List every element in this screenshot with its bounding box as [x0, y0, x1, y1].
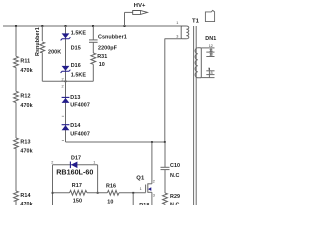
pin tick (D14 top pin 1)	[62, 115, 64, 117]
svg-text:DN1: DN1	[205, 36, 216, 42]
wire: D17 loop left leg	[52, 165, 54, 205]
node: gate line junction dropping wire	[132, 192, 134, 194]
wire: gate line	[53, 192, 70, 194]
secondary winding bottom pins	[206, 70, 214, 72]
svg-text:RB160L-60: RB160L-60	[56, 168, 93, 177]
svg-text:R29: R29	[170, 194, 180, 200]
svg-text:UF4007: UF4007	[70, 131, 90, 137]
node: rail junction at HV+ stub	[124, 25, 126, 27]
svg-text:HV+: HV+	[134, 3, 146, 9]
svg-text:470k: 470k	[20, 202, 32, 205]
svg-text:200K: 200K	[48, 49, 61, 55]
node: drain bus junction at C10 branch	[164, 141, 166, 143]
svg-text:R16: R16	[106, 183, 116, 189]
svg-text:2: 2	[51, 161, 53, 165]
diode D15 1.5KE (TVS, pointing down)	[61, 31, 87, 52]
capacitor Csnubber1 2200pF	[89, 26, 127, 53]
node: rail junction at D15 column	[65, 25, 67, 27]
svg-text:1.5KE: 1.5KE	[71, 72, 87, 78]
svg-text:Rsnubber1: Rsnubber1	[35, 27, 41, 56]
svg-text:1: 1	[93, 161, 95, 165]
svg-text:1: 1	[176, 21, 178, 25]
svg-text:R17: R17	[72, 183, 82, 189]
svg-text:C10: C10	[170, 163, 180, 169]
resistor Rsnubber1 200K	[41, 26, 43, 41]
wire: pin3 drop to drain bus	[164, 39, 166, 143]
transformer core	[193, 26, 195, 205]
diode D14 UF4007 (pointing up)	[62, 123, 90, 137]
resistor R13 470k	[14, 138, 19, 148]
svg-text:UF4007: UF4007	[70, 103, 90, 109]
svg-text:11: 11	[209, 48, 213, 52]
svg-text:2: 2	[62, 77, 64, 81]
resistor R12 470k	[14, 91, 19, 102]
transistor Q1 (MOSFET)	[136, 142, 155, 205]
svg-text:3: 3	[153, 194, 155, 198]
svg-text:R13: R13	[20, 140, 30, 146]
resistor R17 150	[70, 190, 88, 195]
svg-text:R12: R12	[20, 93, 30, 99]
svg-text:10: 10	[209, 53, 213, 57]
svg-text:10: 10	[99, 62, 105, 68]
svg-text:1: 1	[140, 187, 142, 191]
wire: left resistor chain column	[15, 26, 17, 56]
svg-text:R14: R14	[20, 193, 30, 199]
svg-text:N.C: N.C	[170, 203, 180, 206]
svg-text:2: 2	[62, 85, 64, 89]
svg-text:Csnubber1: Csnubber1	[98, 34, 127, 40]
svg-text:2200pF: 2200pF	[98, 45, 118, 51]
diode D17 RB160L-60	[51, 155, 97, 176]
svg-text:D15: D15	[71, 46, 81, 52]
resistor R16 10	[107, 190, 119, 195]
svg-text:R18: R18	[139, 203, 149, 205]
svg-text:470k: 470k	[20, 68, 32, 74]
resistor R29	[163, 193, 168, 204]
node: bus junction at diode column	[65, 80, 67, 82]
svg-text:N.C: N.C	[170, 173, 180, 179]
svg-text:2: 2	[153, 179, 155, 183]
svg-text:Q1: Q1	[136, 176, 145, 182]
svg-text:1.5KE: 1.5KE	[71, 31, 87, 37]
wire: drop from gate line	[132, 193, 134, 205]
wire: top HV rail	[3, 25, 186, 27]
node: junction right leg / gate line	[97, 192, 99, 194]
capacitor C10 N.C	[161, 142, 181, 193]
wire: snubber bus	[42, 80, 93, 82]
svg-text:470k: 470k	[20, 103, 32, 109]
svg-text:D17: D17	[71, 155, 81, 161]
svg-text:150: 150	[73, 198, 82, 204]
diode D16 1.5KE (TVS, pointing down)	[61, 63, 87, 78]
pin tick (D13 bottom / column)	[62, 140, 64, 142]
resistor R31 10	[91, 53, 96, 64]
svg-text:D14: D14	[70, 123, 80, 129]
node: rail junction at left resistor chain	[15, 25, 17, 27]
wire: D17 loop right leg	[97, 165, 99, 193]
secondary winding top (pins 12,11,10)	[195, 48, 198, 78]
resistor R14 470k	[14, 191, 19, 201]
transformer T1	[165, 18, 215, 205]
node: rail junction at Csnubber1	[92, 25, 94, 27]
svg-text:R31: R31	[97, 54, 107, 60]
diode D13 UF4007 (pointing up)	[62, 95, 90, 109]
svg-text:470k: 470k	[20, 149, 32, 155]
wire: drain bus	[66, 141, 165, 143]
svg-text:T1: T1	[192, 18, 200, 24]
node: drain bus junction at Q1	[151, 141, 153, 143]
svg-text:D13: D13	[70, 95, 80, 101]
svg-text:R11: R11	[20, 59, 30, 65]
resistor R11 470k	[14, 56, 19, 67]
power symbol HV+	[125, 3, 148, 26]
svg-text:3: 3	[176, 34, 178, 38]
svg-text:D16: D16	[71, 63, 81, 69]
off-page connector (top right)	[205, 10, 214, 21]
node: junction left leg / gate line	[52, 192, 54, 194]
svg-text:8: 8	[211, 71, 213, 75]
wire: TVS/diode column	[65, 26, 67, 142]
svg-text:10: 10	[107, 200, 113, 205]
node: rail junction at Rsnubber1	[41, 25, 43, 27]
